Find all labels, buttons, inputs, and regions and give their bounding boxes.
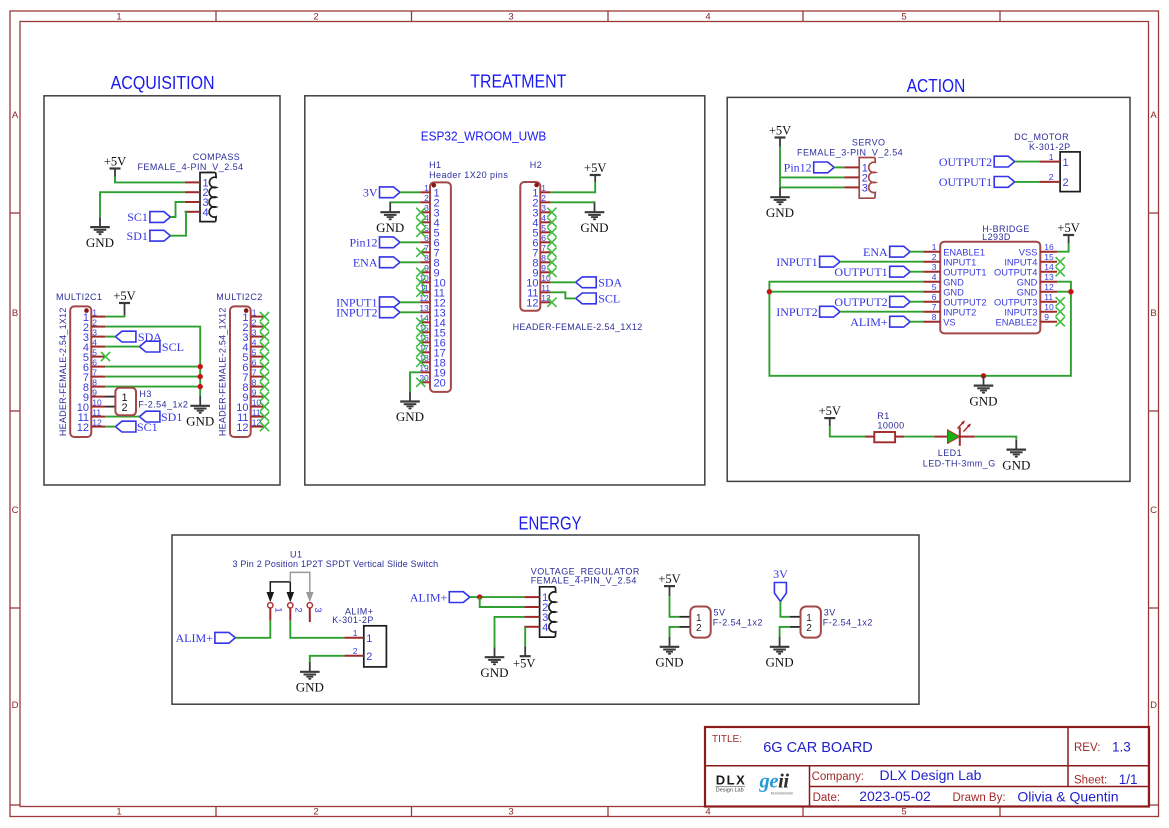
svg-text:2: 2	[252, 317, 257, 327]
svg-text:B: B	[12, 308, 18, 319]
svg-text:SERVO: SERVO	[852, 137, 886, 147]
svg-text:HEADER-FEMALE-2.54_1X12: HEADER-FEMALE-2.54_1X12	[58, 307, 68, 436]
svg-text:7: 7	[252, 367, 257, 377]
svg-text:3: 3	[92, 327, 97, 337]
svg-text:8: 8	[932, 312, 937, 322]
svg-text:FEMALE_4-PIN_V_2.54: FEMALE_4-PIN_V_2.54	[137, 162, 243, 172]
svg-text:B: B	[1150, 308, 1156, 319]
svg-text:2: 2	[932, 252, 937, 262]
svg-text:1: 1	[116, 807, 121, 818]
svg-text:2: 2	[293, 607, 304, 612]
svg-text:4: 4	[542, 622, 548, 634]
svg-text:OUTPUT1: OUTPUT1	[943, 268, 986, 278]
svg-text:DLX Design Lab: DLX Design Lab	[880, 767, 982, 783]
svg-text:2: 2	[424, 193, 429, 203]
svg-text:INPUT4: INPUT4	[1004, 258, 1037, 268]
svg-text:1: 1	[353, 628, 358, 638]
svg-text:3: 3	[508, 807, 513, 818]
svg-text:DLX: DLX	[716, 773, 747, 788]
svg-text:GND: GND	[766, 655, 794, 670]
svg-text:+5V: +5V	[104, 154, 126, 168]
svg-text:OUTPUT2: OUTPUT2	[834, 295, 887, 309]
svg-text:ENABLE2: ENABLE2	[996, 318, 1038, 328]
svg-text:INPUT3: INPUT3	[1004, 308, 1037, 318]
svg-text:GND: GND	[1017, 278, 1038, 288]
svg-text:+5V: +5V	[1057, 221, 1079, 235]
svg-text:7: 7	[932, 302, 937, 312]
svg-text:8: 8	[252, 377, 257, 387]
svg-text:10: 10	[92, 397, 102, 407]
svg-text:1/1: 1/1	[1119, 772, 1138, 787]
svg-text:GND: GND	[655, 655, 683, 670]
svg-text:2: 2	[122, 402, 128, 414]
svg-text:H2: H2	[530, 160, 542, 170]
svg-text:2: 2	[806, 623, 812, 634]
svg-text:6: 6	[252, 357, 257, 367]
svg-text:Date:: Date:	[813, 792, 841, 804]
svg-text:4: 4	[203, 207, 209, 219]
svg-text:ENA: ENA	[863, 245, 888, 259]
svg-text:8: 8	[92, 377, 97, 387]
svg-text:14: 14	[1044, 262, 1054, 272]
svg-text:F-2.54_1x2: F-2.54_1x2	[138, 399, 188, 409]
svg-text:VSS: VSS	[1019, 248, 1038, 258]
svg-text:2023-05-02: 2023-05-02	[859, 788, 931, 804]
svg-text:11: 11	[252, 407, 261, 417]
svg-text:2: 2	[541, 193, 546, 203]
svg-text:Pin12: Pin12	[784, 161, 812, 175]
svg-text:TREATMENT: TREATMENT	[470, 72, 566, 92]
svg-text:H3: H3	[139, 389, 151, 399]
svg-text:4: 4	[92, 337, 97, 347]
svg-text:6: 6	[424, 233, 429, 243]
svg-text:6: 6	[541, 233, 546, 243]
svg-text:D: D	[1150, 700, 1157, 711]
svg-text:OUTPUT1: OUTPUT1	[939, 175, 992, 189]
svg-text:SC1: SC1	[137, 420, 158, 434]
svg-text:INPUT1: INPUT1	[776, 255, 817, 269]
svg-text:2: 2	[696, 623, 702, 634]
svg-text:FEMALE_3-PIN_V_2.54: FEMALE_3-PIN_V_2.54	[797, 147, 903, 157]
svg-text:5V: 5V	[714, 608, 726, 618]
svg-text:L293D: L293D	[982, 232, 1011, 242]
svg-text:H1: H1	[429, 160, 441, 170]
svg-text:+5V: +5V	[819, 404, 841, 418]
svg-text:10000: 10000	[877, 421, 904, 431]
svg-text:HEADER-FEMALE-2.54_1X12: HEADER-FEMALE-2.54_1X12	[217, 307, 227, 436]
svg-text:INPUT2: INPUT2	[776, 305, 817, 319]
svg-text:15: 15	[1044, 252, 1054, 262]
svg-text:3 Pin 2 Position 1P2T SPDT Ver: 3 Pin 2 Position 1P2T SPDT Vertical Slid…	[233, 559, 439, 569]
svg-text:TITLE:: TITLE:	[712, 734, 742, 745]
svg-text:geii: geii	[759, 771, 790, 793]
svg-text:LED-TH-3mm_G: LED-TH-3mm_G	[923, 458, 996, 468]
svg-text:13: 13	[419, 303, 429, 313]
svg-text:A: A	[1150, 110, 1157, 121]
svg-text:SD1: SD1	[127, 229, 148, 243]
svg-text:K-301-2P: K-301-2P	[332, 615, 374, 625]
svg-text:1.3: 1.3	[1112, 740, 1131, 755]
svg-text:3: 3	[252, 327, 257, 337]
svg-text:1: 1	[1049, 152, 1054, 162]
svg-text:SCL: SCL	[598, 292, 620, 306]
svg-text:D: D	[12, 700, 19, 711]
svg-text:GND: GND	[1002, 457, 1030, 472]
svg-text:INPUT1: INPUT1	[943, 258, 976, 268]
svg-text:+5V: +5V	[513, 657, 535, 671]
svg-text:+5V: +5V	[658, 572, 680, 586]
svg-text:3V: 3V	[773, 567, 788, 581]
svg-text:SC1: SC1	[127, 210, 148, 224]
svg-text:12: 12	[236, 422, 248, 434]
svg-text:11: 11	[92, 407, 101, 417]
svg-text:2: 2	[1049, 172, 1054, 182]
svg-text:HEADER-FEMALE-2.54_1X12: HEADER-FEMALE-2.54_1X12	[513, 322, 643, 332]
svg-text:2: 2	[1063, 177, 1069, 189]
svg-text:GND: GND	[766, 205, 794, 220]
svg-text:C: C	[12, 505, 19, 516]
svg-text:GND: GND	[969, 393, 997, 408]
svg-text:5: 5	[92, 347, 97, 357]
svg-text:1: 1	[252, 307, 257, 317]
svg-text:8: 8	[541, 253, 546, 263]
svg-text:ENABLE1: ENABLE1	[943, 248, 985, 258]
svg-text:4: 4	[932, 272, 937, 282]
svg-text:9: 9	[252, 387, 257, 397]
svg-text:MULTI2C1: MULTI2C1	[56, 292, 102, 302]
svg-text:GND: GND	[86, 235, 114, 250]
svg-text:GND: GND	[396, 409, 424, 424]
svg-text:SD1: SD1	[161, 410, 182, 424]
svg-text:SCL: SCL	[162, 340, 184, 354]
svg-text:1: 1	[273, 607, 284, 612]
svg-text:2: 2	[366, 651, 372, 663]
svg-text:LED1: LED1	[938, 448, 962, 458]
svg-text:K-301-2P: K-301-2P	[1029, 142, 1071, 152]
svg-text:REV:: REV:	[1074, 742, 1100, 754]
svg-text:1: 1	[424, 183, 429, 193]
svg-text:+5V: +5V	[584, 161, 606, 175]
svg-text:GND: GND	[943, 288, 964, 298]
svg-text:4: 4	[541, 213, 546, 223]
svg-text:12: 12	[77, 422, 89, 434]
svg-text:ALIM+: ALIM+	[175, 631, 213, 645]
svg-text:COMPASS: COMPASS	[193, 152, 241, 162]
svg-text:3V: 3V	[363, 186, 378, 200]
svg-text:Design Lab: Design Lab	[716, 788, 744, 794]
svg-text:Olivia & Quentin: Olivia & Quentin	[1017, 789, 1118, 805]
svg-text:12: 12	[92, 417, 102, 427]
svg-text:F-2.54_1x2: F-2.54_1x2	[713, 617, 763, 627]
svg-text:16: 16	[1044, 242, 1054, 252]
svg-text:GND: GND	[580, 220, 608, 235]
svg-text:13: 13	[1044, 272, 1054, 282]
svg-text:ENERGY: ENERGY	[519, 514, 582, 534]
svg-text:OUTPUT2: OUTPUT2	[939, 155, 992, 169]
svg-text:ALIM+: ALIM+	[410, 590, 448, 604]
svg-text:ACQUISITION: ACQUISITION	[111, 73, 215, 93]
svg-text:12: 12	[526, 298, 538, 310]
svg-text:OUTPUT4: OUTPUT4	[994, 268, 1037, 278]
svg-text:3V: 3V	[824, 608, 836, 618]
svg-text:3: 3	[312, 607, 323, 612]
svg-text:4: 4	[705, 807, 710, 818]
svg-text:3: 3	[932, 262, 937, 272]
svg-text:1: 1	[366, 633, 372, 645]
svg-text:U1: U1	[290, 550, 302, 560]
svg-text:6: 6	[92, 357, 97, 367]
svg-text:MULTI2C2: MULTI2C2	[216, 292, 262, 302]
svg-text:Header 1X20 pins: Header 1X20 pins	[429, 170, 508, 180]
svg-text:5: 5	[252, 347, 257, 357]
svg-text:2: 2	[313, 12, 318, 23]
svg-text:1: 1	[116, 12, 121, 23]
svg-text:M.mmmmmmm: M.mmmmmmm	[771, 792, 793, 796]
svg-text:OUTPUT2: OUTPUT2	[943, 298, 986, 308]
svg-text:2: 2	[92, 317, 97, 327]
svg-text:GND: GND	[480, 665, 508, 680]
svg-text:6G CAR BOARD: 6G CAR BOARD	[763, 740, 873, 756]
svg-text:ENA: ENA	[353, 256, 378, 270]
svg-text:Drawn By:: Drawn By:	[953, 792, 1006, 804]
svg-text:VS: VS	[943, 318, 955, 328]
svg-text:4: 4	[252, 337, 257, 347]
svg-text:1: 1	[932, 242, 937, 252]
svg-text:DC_MOTOR: DC_MOTOR	[1014, 132, 1069, 142]
svg-text:3: 3	[862, 182, 868, 194]
svg-text:4: 4	[705, 12, 710, 23]
svg-text:5: 5	[901, 807, 906, 818]
svg-text:ESP32_WROOM_UWB: ESP32_WROOM_UWB	[421, 129, 547, 144]
svg-text:OUTPUT1: OUTPUT1	[834, 265, 887, 279]
svg-text:3: 3	[508, 12, 513, 23]
svg-text:+5V: +5V	[769, 123, 791, 137]
svg-text:11: 11	[1044, 292, 1053, 302]
svg-text:2: 2	[313, 807, 318, 818]
svg-text:GND: GND	[186, 414, 214, 429]
svg-text:1: 1	[1063, 157, 1069, 169]
svg-text:ACTION: ACTION	[907, 76, 966, 96]
svg-text:SDA: SDA	[598, 276, 622, 290]
svg-text:9: 9	[92, 387, 97, 397]
svg-text:A: A	[12, 110, 19, 121]
svg-text:9: 9	[1044, 312, 1049, 322]
svg-text:3: 3	[541, 203, 546, 213]
svg-text:11: 11	[541, 283, 550, 293]
svg-text:Sheet:: Sheet:	[1074, 775, 1107, 787]
svg-text:Company:: Company:	[812, 771, 864, 783]
svg-text:12: 12	[1044, 282, 1054, 292]
svg-text:ALIM+: ALIM+	[850, 315, 888, 329]
svg-text:OUTPUT3: OUTPUT3	[994, 298, 1037, 308]
svg-text:F-2.54_1x2: F-2.54_1x2	[823, 617, 873, 627]
svg-text:INPUT2: INPUT2	[336, 306, 377, 320]
svg-text:+5V: +5V	[113, 289, 135, 303]
svg-text:C: C	[1150, 505, 1157, 516]
svg-text:7: 7	[541, 243, 546, 253]
svg-text:5: 5	[541, 223, 546, 233]
svg-text:7: 7	[92, 367, 97, 377]
svg-text:GND: GND	[296, 680, 324, 695]
svg-text:5: 5	[932, 282, 937, 292]
svg-text:2: 2	[353, 646, 358, 656]
svg-text:GND: GND	[943, 278, 964, 288]
svg-text:Pin12: Pin12	[349, 236, 377, 250]
svg-text:6: 6	[932, 292, 937, 302]
svg-text:20: 20	[434, 378, 446, 390]
svg-text:INPUT2: INPUT2	[943, 308, 976, 318]
svg-text:12: 12	[541, 293, 551, 303]
svg-text:5: 5	[901, 12, 906, 23]
svg-text:GND: GND	[376, 220, 404, 235]
svg-text:GND: GND	[1017, 288, 1038, 298]
svg-text:1: 1	[92, 307, 97, 317]
svg-text:9: 9	[541, 263, 546, 273]
svg-text:1: 1	[541, 183, 546, 193]
svg-text:10: 10	[1044, 302, 1054, 312]
svg-text:FEMALE_4-PIN_V_2.54: FEMALE_4-PIN_V_2.54	[531, 576, 637, 586]
svg-text:8: 8	[424, 253, 429, 263]
